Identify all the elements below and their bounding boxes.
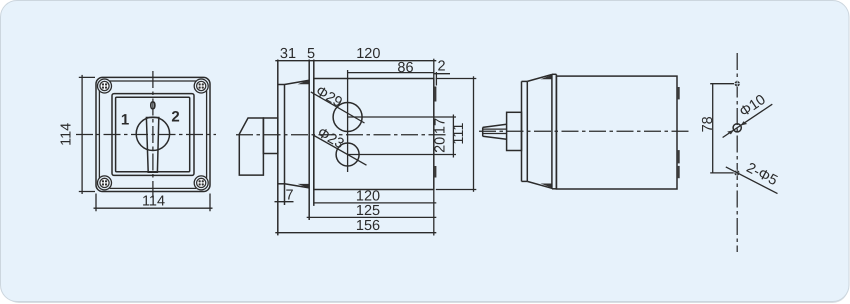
leader D10 arrow upper [741, 121, 748, 125]
dim 78 line [712, 84, 714, 173]
bezel top slant fill triangle [298, 80, 310, 85]
screw bottom-right [197, 178, 206, 187]
handle grip [239, 118, 263, 175]
body rectangle [556, 76, 677, 189]
bezel bottom slant [527, 181, 552, 188]
bezel bottom slant [285, 184, 310, 188]
bezel face line 2 [526, 81, 528, 181]
screw boss arc top-right [194, 79, 208, 93]
bezel face bottom edge [278, 183, 285, 185]
mounting plate top edge [552, 73, 557, 75]
front plate outer square [96, 77, 210, 191]
svg-text:17: 17 [433, 118, 449, 134]
dim 2 ext line [435, 72, 437, 86]
dim 86 line [348, 72, 434, 74]
shaft key flat top [483, 128, 507, 130]
terminal tab top [434, 87, 437, 102]
svg-text:156: 156 [356, 218, 380, 234]
svg-text:114: 114 [142, 193, 165, 209]
mounting plate line 2 [313, 60, 315, 206]
dim 114 left: dimension line [81, 75, 83, 194]
dim 111 ext top [436, 78, 477, 80]
screw boss arc bottom-right [194, 176, 208, 190]
dim 17/20 line [452, 115, 454, 158]
bezel outer square [112, 94, 194, 176]
leader D10 arrow lower [727, 130, 734, 134]
bezel inner square [116, 97, 190, 172]
bezel front face line 2 [284, 85, 286, 206]
vertical line through hole centers [347, 70, 349, 172]
svg-text:2: 2 [437, 59, 445, 75]
bezel top slant [527, 75, 552, 82]
dim 7 line [275, 201, 294, 203]
mounting plate line 1 [308, 60, 310, 221]
ext line body right top [433, 59, 435, 79]
knob circle [136, 117, 169, 150]
svg-text:2: 2 [171, 109, 179, 126]
switch body rectangle [314, 79, 434, 190]
shaft tip edge [482, 127, 484, 136]
terminal tab top [677, 87, 680, 99]
dim 114 bottom: extension lines [96, 194, 210, 212]
horizontal centerline [479, 130, 691, 132]
dim 114 left: extension lines [79, 77, 95, 191]
svg-text:20: 20 [433, 137, 449, 153]
bezel bottom slant fill triangle [541, 184, 552, 188]
bezel top slant fill triangle [541, 75, 552, 79]
mounting plate bottom edge [552, 188, 557, 190]
mounting plate line 1 [551, 74, 553, 189]
bezel face line 1 [521, 81, 523, 181]
bottom mounting hole [734, 170, 740, 176]
svg-text:114: 114 [59, 123, 75, 146]
mounting plate line 2 [555, 74, 557, 189]
bezel face top edge [278, 84, 285, 86]
ext line body right bottom [433, 190, 435, 236]
top mounting hole [734, 81, 740, 87]
screw boss arc bottom-left [98, 176, 112, 190]
terminal tab bottom [677, 166, 680, 178]
shaft top line [483, 124, 507, 127]
dim 78 ext top [710, 83, 734, 85]
terminal tab bottom [434, 166, 437, 178]
shaft key flat bottom [483, 133, 507, 135]
bezel face top edge [522, 80, 528, 82]
leader D10 [723, 104, 773, 137]
handle hub [263, 118, 277, 154]
front plate inner rim [99, 81, 206, 188]
screw top-right [197, 81, 206, 90]
top dimension line 31/5/120 [275, 60, 436, 62]
front view vertical centerline [152, 71, 154, 199]
screw boss arc top-left [98, 79, 112, 93]
horizontal centerline [236, 134, 447, 136]
dim 156 line [275, 232, 436, 234]
center hole D10 [733, 124, 741, 132]
screw bottom-left [100, 178, 109, 187]
bezel bottom slant fill triangle [298, 184, 310, 189]
dim 120 bottom line [314, 202, 437, 204]
svg-text:120: 120 [356, 46, 380, 62]
svg-text:86: 86 [397, 60, 413, 76]
svg-text:78: 78 [700, 116, 716, 132]
dim 114 bottom: dimension line [94, 207, 213, 209]
svg-text:111: 111 [451, 123, 467, 145]
bezel face bottom edge [522, 180, 528, 182]
bezel front face line 1 [277, 60, 279, 236]
svg-text:125: 125 [356, 203, 380, 219]
dim 111 line [473, 76, 475, 192]
screw top-left [100, 81, 109, 90]
dim 2 line [434, 73, 450, 75]
leader D23 [313, 135, 366, 165]
hole circle D23 [336, 143, 359, 166]
terminal tab middle [677, 150, 680, 163]
shaft bottom line [483, 136, 507, 139]
front view horizontal centerline [76, 134, 216, 136]
horizontal line upper hole center [348, 116, 456, 118]
svg-text:7: 7 [285, 188, 293, 204]
dim 111 ext bottom [436, 189, 477, 191]
dim 125 line [307, 216, 437, 218]
vertical centerline [736, 53, 738, 252]
dim 78 ext bottom [710, 172, 734, 174]
hole circle D29 [333, 103, 362, 132]
leader D29 [311, 92, 365, 123]
knob handle blade [146, 118, 158, 173]
horizontal line lower hole center [348, 154, 456, 156]
svg-text:31: 31 [280, 46, 296, 62]
svg-text:5: 5 [307, 46, 315, 62]
svg-text:1: 1 [121, 111, 129, 128]
leader 2-D5 [726, 167, 778, 194]
shaft hub [507, 112, 522, 150]
bezel top slant [285, 80, 310, 84]
